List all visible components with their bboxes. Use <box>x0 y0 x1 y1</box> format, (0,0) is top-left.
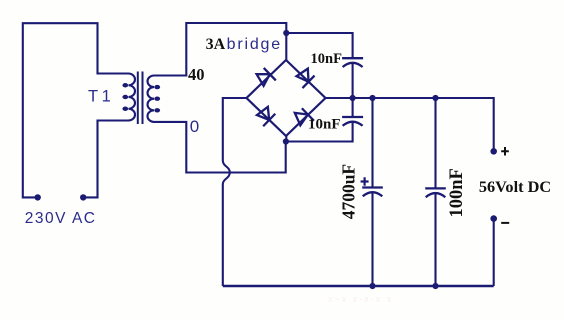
svg-text:100nF: 100nF <box>447 168 467 217</box>
wire: secondary bottom (0) down, across, up to bridge bottom node <box>154 122 286 173</box>
svg-text:10nF: 10nF <box>311 51 343 67</box>
wire: minus terminal down to bottom rail <box>493 219 495 286</box>
wire: branch from top node to snubber column <box>286 33 352 58</box>
transformer T1 core lines <box>138 72 143 125</box>
diode D3 bottom-left <box>257 107 275 126</box>
wire: 4700uF column top <box>371 98 373 188</box>
svg-text:56Volt DC: 56Volt DC <box>479 177 551 196</box>
output plus terminal dot <box>490 148 497 155</box>
wire: 100nF column top <box>434 98 436 188</box>
transformer T1 primary winding <box>129 74 136 121</box>
diode D1 top-left <box>257 68 276 86</box>
wire: 100nF column bottom <box>434 194 436 287</box>
label plus at output <box>501 147 509 156</box>
svg-text:3Abridge: 3Abridge <box>206 36 282 53</box>
svg-text:10nF: 10nF <box>308 117 341 133</box>
svg-text:40: 40 <box>188 65 205 84</box>
wire: middle rail from bridge right corner to output <box>326 98 494 148</box>
svg-text:0: 0 <box>190 117 199 136</box>
bridge rectifier diamond <box>247 60 326 136</box>
transformer T1 primary winding nubs <box>122 83 128 111</box>
label plus polarity of 4700uF <box>361 177 369 186</box>
junction dot bridge bottom node <box>283 138 289 144</box>
AC terminal left dot <box>35 194 41 200</box>
diode D2 top-right <box>297 69 315 88</box>
junction dot middle rail 4700uF <box>369 95 375 101</box>
wire: 4700uF column bottom <box>371 193 373 286</box>
wire: bottom rail <box>223 285 494 288</box>
wire: bridge bottom stem and branch right to lower snubber <box>286 122 352 141</box>
wire: below C1 to middle rail <box>352 63 354 98</box>
svg-text:230V AC: 230V AC <box>25 210 97 227</box>
junction dot bottom rail 4700uF <box>369 283 375 289</box>
wire: primary bottom to right AC terminal <box>83 121 128 198</box>
capacitor C3 4700uF plates <box>362 188 383 197</box>
junction dot middle rail 100nF <box>432 95 438 101</box>
wire: bridge left corner to long return vertical with hop over 0-wire <box>223 98 247 286</box>
transformer T1 secondary winding <box>148 76 155 122</box>
transformer T1 secondary winding nubs <box>154 85 160 113</box>
junction dot middle rail snubber <box>350 95 356 101</box>
AC terminal right dot <box>80 194 86 200</box>
output minus terminal dot <box>490 215 497 222</box>
wire: AC source left vertical + top + stub to left terminal <box>23 23 129 197</box>
wire: secondary top (40) up to top rail, across to bridge top <box>154 23 286 76</box>
label minus at output <box>501 222 509 224</box>
capacitor C1 10nF top plates <box>342 58 363 67</box>
svg-text:x~x x-x-x x: x~x x-x-x x <box>328 294 393 304</box>
junction dot bottom rail 100nF <box>432 283 438 289</box>
junction dot top node <box>283 30 289 36</box>
svg-text:4700uF: 4700uF <box>339 164 359 219</box>
capacitor C2 10nF bottom plates <box>342 117 363 126</box>
svg-text:T1: T1 <box>88 88 114 106</box>
capacitor C4 100nF plates <box>425 188 446 197</box>
diode D4 bottom-right <box>295 108 314 125</box>
wire: lower snubber column from middle rail <box>352 98 354 117</box>
